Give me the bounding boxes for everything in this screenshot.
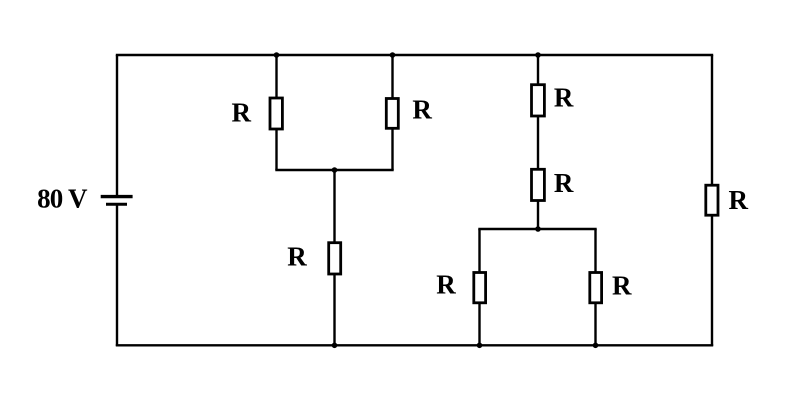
svg-text:R: R xyxy=(436,269,456,299)
svg-text:R: R xyxy=(412,95,432,125)
svg-text:R: R xyxy=(554,168,574,198)
svg-text:R: R xyxy=(729,185,749,215)
svg-text:80 V: 80 V xyxy=(37,184,88,214)
svg-text:R: R xyxy=(612,271,632,301)
svg-text:R: R xyxy=(554,82,574,112)
svg-text:R: R xyxy=(287,241,307,271)
svg-text:R: R xyxy=(232,98,252,128)
